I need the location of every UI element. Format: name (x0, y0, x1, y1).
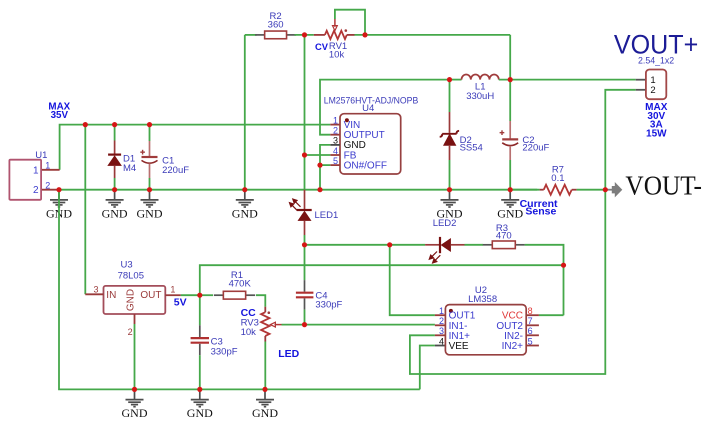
wire RV3 bottom lead (264, 336, 266, 342)
wire OUT1 node down to C4 (304, 245, 306, 280)
wire U3 gnd down (134, 324, 136, 389)
wire C1 bottom to gnd rail (149, 178, 151, 190)
svg-text:1: 1 (439, 306, 444, 316)
svg-text:2: 2 (650, 85, 655, 96)
wire R2-left to ground rail (244, 35, 246, 190)
svg-text:GND: GND (102, 207, 128, 221)
wire 5V to R1 (200, 294, 213, 296)
pin U2-4 stub (435, 345, 446, 347)
wire RV3 wiper to IN1- (282, 324, 435, 326)
wire C4 to IN1- line (304, 310, 306, 325)
svg-text:0.1: 0.1 (551, 173, 564, 184)
svg-text:15W: 15W (646, 128, 667, 139)
wire R1 to RV3 top (256, 295, 265, 307)
wire ground rail (59, 189, 537, 191)
wire R2 to RV1 (295, 34, 314, 36)
svg-text:Sense: Sense (525, 206, 556, 218)
ground GND at U1 (50, 190, 68, 207)
ground GND at D2 (441, 190, 459, 207)
pin U2-7 stub (526, 324, 539, 326)
ground GND at U3 (126, 389, 144, 406)
resistor R3 470 (483, 241, 525, 249)
wire C2 top (509, 80, 511, 121)
ground GND at C3 (191, 389, 209, 406)
svg-text:1: 1 (170, 284, 175, 294)
pin U3-1 stub OUT (165, 294, 181, 296)
op-amp U2 LM358 body (445, 305, 526, 355)
wire RV1 to output riser (355, 34, 511, 36)
wire OUT1 rail (305, 244, 426, 246)
node junction U1-2/gnd (56, 187, 61, 192)
svg-text:10k: 10k (241, 327, 257, 338)
pin U1-2 stub (41, 189, 59, 191)
RV1 decoration dot (345, 29, 348, 32)
wire 5V rail (200, 265, 564, 295)
pin U2-5 stub (526, 345, 539, 347)
pin X2-1 stub (636, 79, 646, 81)
svg-text:78L05: 78L05 (118, 271, 144, 282)
node junction D2/switch (447, 77, 452, 82)
U2 pin-1 mark (449, 309, 453, 313)
wire L1 to VOUT+ pin1 (499, 79, 636, 81)
RV3 decoration dot (268, 311, 271, 314)
capacitor C2 220uF polarized (509, 121, 511, 139)
svg-text:2: 2 (33, 185, 39, 196)
svg-text:VOUT-: VOUT- (625, 171, 702, 201)
svg-text:M4: M4 (123, 163, 136, 174)
RV1 wiper arrow (334, 19, 336, 27)
node junction U3gnd/rail (132, 387, 137, 392)
node junction C4/IN1- (302, 322, 307, 327)
svg-text:2: 2 (45, 180, 50, 190)
wire 5V node down (199, 295, 201, 325)
svg-text:LED1: LED1 (315, 210, 339, 221)
wire VCC riser to U2 pin8 (539, 314, 564, 316)
pin U2-1 stub (435, 314, 446, 316)
svg-text:330uH: 330uH (466, 91, 494, 102)
node junction D1/gnd (112, 187, 117, 192)
connector U1 body (9, 160, 41, 200)
wire left gnd drop (59, 190, 420, 390)
wire D1 anode to gnd rail (114, 178, 116, 190)
wire C2 bottom to gnd (509, 160, 511, 190)
wire divider node down to FB (304, 35, 306, 155)
svg-text:10k: 10k (329, 50, 345, 61)
svg-text:LM358: LM358 (468, 294, 497, 305)
wire RV1 left lead (314, 34, 325, 36)
svg-text:GND: GND (187, 406, 213, 420)
svg-text:2: 2 (128, 327, 133, 337)
capacitor C3 330pF (199, 325, 201, 337)
wire switch node to L1 (450, 79, 462, 81)
wire MAX35V rail (60, 125, 331, 170)
potentiometer RV1 10k (325, 31, 347, 39)
pin U3-2 stub GND (134, 314, 136, 324)
node junction FB (302, 152, 307, 157)
svg-text:3: 3 (439, 326, 444, 336)
svg-text:220uF: 220uF (162, 165, 189, 176)
svg-text:GND: GND (122, 406, 148, 420)
wire RV3 to gnd rail (264, 342, 266, 390)
wire U4 gnd riser (320, 145, 330, 190)
ground GND at RV3 (256, 389, 274, 406)
wire D1 cathode (114, 125, 116, 141)
diode D1 M4 (114, 141, 116, 155)
ground GND at C1 (141, 190, 159, 207)
op U3 78L05 body (104, 286, 166, 314)
svg-text:4: 4 (439, 336, 444, 346)
node junction RV1 wiper tie (362, 32, 367, 37)
node junction C3/rail (197, 387, 202, 392)
svg-text:1: 1 (333, 115, 338, 125)
wire D2 anode to gnd (449, 160, 451, 190)
resistor R7 0.1 (544, 185, 572, 195)
node junction VCC/R3 (561, 263, 566, 268)
svg-text:3: 3 (93, 284, 98, 294)
pin U2-3 stub (435, 334, 446, 336)
svg-text:IN2+: IN2+ (502, 341, 524, 352)
potentiometer RV3 10k (261, 312, 269, 336)
pin U4-5 stub (330, 164, 340, 166)
svg-text:U3: U3 (121, 259, 133, 270)
node junction VOUT- (603, 187, 608, 192)
resistor R1 470K (214, 291, 255, 299)
node junction U4-gnd riser (317, 187, 322, 192)
diode D2 SS54 schottky (449, 112, 451, 133)
svg-text:35V: 35V (51, 110, 69, 121)
port VOUT- arrow (605, 189, 612, 191)
pin U1-1 stub (41, 169, 60, 171)
svg-text:470K: 470K (229, 278, 252, 289)
wire R3 to VCC riser (525, 245, 564, 315)
wire U3 OUT to 5V node (181, 294, 200, 296)
node junction OUT1 riser (387, 242, 392, 247)
wire top rail from R2-left corner (245, 34, 257, 36)
wire OUTPUT riser (320, 80, 450, 135)
capacitor C4 330pF (304, 280, 306, 292)
svg-text:LED: LED (278, 348, 299, 360)
pin U4-1 stub VIN (330, 124, 340, 126)
node junction 5V (197, 293, 202, 298)
svg-text:U1: U1 (35, 150, 47, 161)
svg-text:GND: GND (232, 207, 258, 221)
wire FB to divider (305, 154, 331, 156)
wire RV1 wiper bypass loop (335, 10, 365, 35)
svg-text:LED2: LED2 (433, 218, 457, 229)
node junction LED1/C4/OUT1-rail (302, 242, 307, 247)
svg-text:VEE: VEE (449, 341, 469, 352)
svg-text:330pF: 330pF (315, 300, 342, 311)
op U4 LM2576 body (340, 114, 401, 174)
wire FB node down (304, 155, 306, 190)
node junction 35V/C1 (147, 122, 152, 127)
svg-text:360: 360 (268, 19, 284, 30)
svg-text:8: 8 (528, 306, 533, 316)
pin X2-2 stub (636, 89, 646, 91)
svg-text:2: 2 (333, 126, 338, 136)
pin U2-2 stub (435, 324, 446, 326)
wire C1 top (149, 125, 151, 141)
svg-text:1: 1 (45, 161, 50, 171)
pin U2-8 stub (526, 314, 539, 316)
node junction C2/gnd (508, 187, 513, 192)
svg-text:GND: GND (252, 406, 278, 420)
node junction C1/gnd (147, 187, 152, 192)
svg-text:2: 2 (439, 316, 444, 326)
svg-text:IN: IN (106, 290, 116, 301)
wire gnd rail to R7 (510, 189, 539, 191)
ground GND at C2 (501, 190, 519, 207)
svg-text:OUT: OUT (140, 290, 161, 301)
wire LED2 to R3 (465, 244, 484, 246)
U4 pin-1 mark (345, 118, 349, 122)
svg-text:GND: GND (137, 207, 163, 221)
wire VEE to gnd rail (420, 346, 435, 390)
node junction ON-OFF (317, 163, 322, 168)
led LED2 (425, 244, 440, 246)
svg-text:U4: U4 (362, 103, 374, 114)
svg-text:1: 1 (33, 165, 39, 176)
svg-text:2.54_1x2: 2.54_1x2 (638, 55, 674, 65)
wire ON/OFF to gnd riser (320, 164, 330, 166)
wire R7 to VOUT- (577, 189, 606, 191)
capacitor C1 220uF polarized (149, 141, 151, 156)
node junction 35V/D1 (112, 122, 117, 127)
pin U2-6 stub (526, 334, 539, 336)
inductor L1 330uH (462, 74, 499, 79)
resistor R2 (255, 31, 296, 39)
wire C3 to gnd rail (199, 355, 201, 389)
wire top rail down to L1 output (509, 35, 511, 80)
pin U4-4 stub FB (330, 154, 340, 156)
connector X2 VOUT+ body (646, 70, 666, 100)
svg-text:SS54: SS54 (460, 143, 483, 154)
wire R7 left lead (540, 189, 544, 191)
svg-text:470: 470 (496, 231, 512, 242)
node junction RV3/rail (262, 387, 267, 392)
node junction 35V/U3-in riser (83, 122, 88, 127)
wire IN1+ sense line (410, 190, 605, 374)
led LED1 (304, 190, 306, 210)
wire VOUT- to X2 pin2 (605, 90, 635, 190)
wire R7 right lead (572, 189, 577, 191)
svg-text:330pF: 330pF (211, 346, 238, 357)
wire RV3 top lead (264, 307, 266, 313)
node junction L1/C2/top (508, 77, 513, 82)
wire RV1 right lead (347, 34, 355, 36)
wire D2 cathode (449, 80, 451, 112)
node junction D2/gnd (447, 187, 452, 192)
pin U4-2 stub (330, 134, 340, 136)
svg-text:CV: CV (315, 41, 329, 52)
wire OUT1 riser to U2 pin1 (390, 245, 435, 315)
RV3 wiper arrow (275, 324, 282, 326)
svg-text:GND: GND (126, 289, 137, 311)
svg-text:5V: 5V (174, 296, 187, 308)
node junction R2/RV1/FB-divider (302, 32, 307, 37)
pin U4-3 stub (330, 144, 340, 146)
ground GND at R2 (236, 190, 254, 207)
ground GND at D1 (106, 190, 124, 207)
node junction R2-divider/gnd (242, 187, 247, 192)
wire LED1 anode down (304, 235, 306, 245)
svg-text:220uF: 220uF (522, 143, 549, 154)
svg-text:ON#/OFF: ON#/OFF (344, 160, 387, 171)
wire 35V rail down to U3 IN (84, 125, 86, 295)
pin U3-3 stub IN (85, 293, 103, 295)
